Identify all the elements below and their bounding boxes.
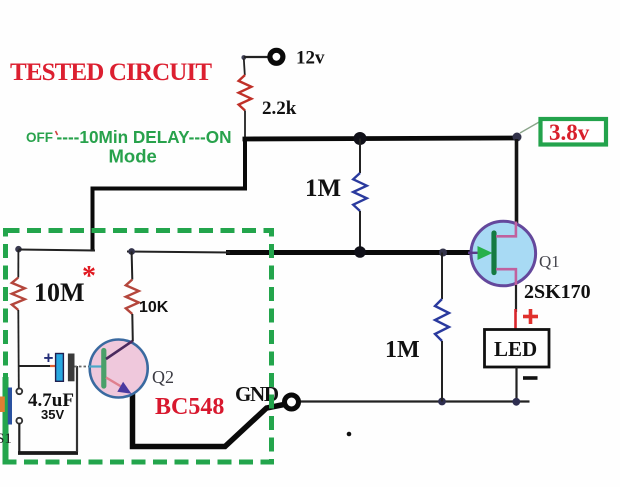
junction node on supply bus: [354, 132, 367, 145]
switch S1 terminal bottom: [16, 418, 22, 424]
wire R3 bottom lead: [441, 341, 443, 402]
node LED/ground junction: [512, 398, 520, 406]
wire cap branch: [18, 365, 55, 367]
transistor Q1 body: [471, 221, 536, 286]
resistor R2 1M: [353, 173, 367, 211]
svg-text:Q2: Q2: [152, 367, 174, 387]
Q1 drain inner lead: [496, 222, 516, 237]
Q2 collector lead: [106, 341, 133, 359]
svg-text:*: *: [82, 261, 96, 292]
wire 12v stub: [244, 56, 269, 58]
node supply right: [513, 133, 522, 142]
svg-text:2SK170: 2SK170: [524, 281, 591, 303]
wire R2 top lead: [359, 139, 361, 174]
wire S1 bottom lead: [18, 424, 20, 453]
resistor R5 10K: [126, 280, 139, 315]
Q1 channel bar: [491, 233, 496, 273]
svg-text:S1: S1: [0, 431, 12, 447]
svg-text:Q1: Q1: [539, 252, 560, 271]
svg-text:OFF: OFF: [26, 130, 53, 145]
enclosure dashed box: [6, 231, 272, 463]
LED D1 box: [485, 330, 550, 368]
mode annotation OFF/DELAY/ON: [26, 127, 232, 167]
wire R1 top lead: [244, 59, 245, 76]
label - (LED cathode): [523, 376, 538, 380]
switch S1 body: [0, 377, 12, 465]
wire LED anode (red): [514, 309, 517, 330]
Q1 gate arrow: [478, 246, 493, 260]
junction node gate bus: [354, 246, 366, 258]
svg-text:10M: 10M: [34, 278, 85, 307]
callout line to 3.8v box: [520, 122, 540, 134]
wire R5 bottom lead: [131, 314, 134, 342]
wire from supply to enclosure: [93, 137, 246, 252]
wire ground bus: [298, 400, 530, 402]
svg-text:BC548: BC548: [155, 394, 224, 420]
resistor R4 10M: [12, 278, 25, 311]
Q1 source inner lead: [496, 269, 516, 285]
GND terminal ring: [285, 395, 299, 409]
Q1 gate lead: [468, 252, 479, 254]
node 10K top: [128, 248, 135, 255]
Q2 emitter lead: [106, 378, 127, 391]
wire 10K bus link: [127, 252, 230, 253]
capacitor C1 positive plate: [56, 354, 64, 382]
wire R5 top lead: [131, 252, 134, 280]
wire LED cathode lead: [515, 367, 517, 402]
wire R4 bottom lead: [17, 310, 20, 388]
wire R1 bottom lead: [244, 111, 246, 138]
wire Q1 source lead: [515, 285, 517, 312]
switch S1 terminal top: [16, 388, 22, 394]
svg-text:1M: 1M: [385, 337, 420, 363]
svg-text:+: +: [44, 349, 54, 368]
svg-text:LED: LED: [494, 337, 537, 361]
wire C1 to Q2 base: [75, 366, 91, 368]
label + (LED anode): [523, 309, 538, 324]
wire ground return thick: [133, 389, 285, 447]
Q2 emitter arrow: [117, 382, 131, 394]
12v terminal ring: [270, 50, 283, 63]
resistor R3 1M: [435, 299, 449, 341]
svg-text:----10Min DELAY---ON: ----10Min DELAY---ON: [57, 127, 232, 147]
svg-text:35V: 35V: [41, 407, 64, 422]
svg-text:10K: 10K: [139, 299, 169, 316]
svg-text:2.2k: 2.2k: [262, 98, 297, 119]
wire Q1 drain lead: [515, 139, 519, 225]
Q2 base bar: [101, 351, 106, 387]
wire R3 top lead: [441, 253, 443, 300]
svg-text:3.8v: 3.8v: [549, 120, 590, 145]
node gate/1M junction: [439, 249, 447, 257]
svg-text:1M: 1M: [305, 175, 341, 202]
wire enclosure top: [19, 250, 96, 251]
measurement box 3.8v: [541, 119, 607, 145]
svg-text:Mode: Mode: [109, 146, 157, 167]
wire gate bus thick: [226, 250, 472, 255]
node 1M/ground junction: [438, 398, 446, 406]
svg-text:TESTED CIRCUIT: TESTED CIRCUIT: [10, 59, 212, 86]
node 10M top: [15, 246, 22, 253]
wire orange segment at C1: [50, 365, 56, 367]
resistor R1 2.2k: [239, 75, 252, 111]
wire top supply bus: [243, 138, 516, 139]
capacitor C1 negative plate: [68, 354, 75, 382]
stray node dot: [347, 432, 352, 437]
transistor Q2 body: [90, 340, 148, 398]
wire R2 bottom lead: [359, 211, 361, 252]
node 12v terminal stub: [241, 55, 246, 60]
wire R4 top lead: [17, 250, 19, 278]
wire Q2 base inner: [89, 365, 102, 367]
wire enclosure bottom: [18, 451, 78, 455]
svg-text:12v: 12v: [296, 48, 325, 69]
wire C1 bottom lead: [76, 366, 78, 452]
